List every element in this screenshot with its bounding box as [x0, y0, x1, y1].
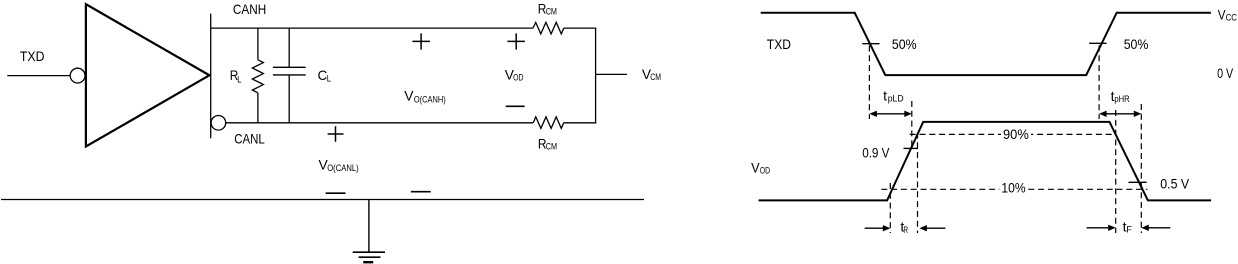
- wire CANH right segment: [564, 27, 597, 29]
- svg-text:OD: OD: [760, 166, 771, 176]
- dimension arrow tF left: [1087, 225, 1116, 231]
- minus sign VO(CANL): [326, 192, 346, 194]
- dimension arrow tpLD: [869, 111, 911, 117]
- dashed vertical VOD rise start: [889, 183, 891, 233]
- tick 50% falling: [862, 43, 879, 45]
- wire CANH left segment: [211, 27, 533, 29]
- svg-text:L: L: [327, 74, 331, 84]
- svg-text:OD: OD: [513, 73, 524, 83]
- dimension arrow tpHR: [1099, 111, 1141, 117]
- svg-text:10%: 10%: [1001, 179, 1025, 195]
- wire TXD input: [7, 75, 70, 77]
- tick 0.5V: [1129, 181, 1147, 183]
- svg-text:50%: 50%: [892, 36, 917, 52]
- svg-text:V: V: [404, 88, 414, 104]
- wire ground lead: [368, 200, 370, 252]
- capacitor CL: [273, 28, 306, 123]
- dimension arrow tR left: [865, 225, 891, 231]
- resistor RCM top: [533, 22, 564, 34]
- minus sign VOD: [506, 105, 525, 107]
- svg-text:CM: CM: [546, 6, 557, 16]
- dashed vertical VOD 0.5V crossing: [1140, 104, 1142, 233]
- resistor RL: [252, 28, 263, 123]
- wire CANL right segment: [564, 122, 597, 124]
- svg-text:0.5 V: 0.5 V: [1160, 176, 1189, 192]
- svg-text:t: t: [883, 88, 887, 104]
- svg-text:F: F: [1126, 225, 1132, 235]
- dashed line 10% level: [881, 188, 1147, 190]
- svg-text:TXD: TXD: [20, 48, 45, 64]
- svg-text:CM: CM: [650, 72, 661, 82]
- inverter bubble on CANL output: [211, 116, 226, 131]
- svg-text:TXD: TXD: [767, 36, 791, 52]
- wire VCM stub: [596, 73, 627, 75]
- svg-text:CC: CC: [1226, 12, 1238, 22]
- waveform VOD: [759, 122, 1212, 200]
- dashed vertical VOD 90% crossing: [917, 133, 919, 234]
- plus sign VO(CANL): [328, 126, 344, 142]
- svg-text:0.9 V: 0.9 V: [862, 145, 890, 161]
- minus sign VO(CANH): [411, 191, 431, 193]
- svg-text:O(CANL): O(CANL): [327, 163, 359, 173]
- tick 50% rising: [1089, 42, 1106, 44]
- svg-text:O(CANH): O(CANH): [414, 94, 446, 104]
- svg-text:CANH: CANH: [233, 1, 266, 17]
- plus sign VOD: [507, 33, 525, 49]
- svg-text:50%: 50%: [1124, 36, 1149, 52]
- plus sign VO(CANH): [412, 33, 430, 49]
- wire ground rail: [1, 199, 644, 201]
- ground: [353, 252, 385, 262]
- wire output bus vertical: [210, 14, 212, 139]
- svg-text:R: R: [903, 225, 908, 235]
- svg-text:CANL: CANL: [234, 130, 265, 146]
- svg-text:L: L: [237, 74, 241, 84]
- svg-text:CM: CM: [546, 142, 557, 152]
- inverter bubble on driver input: [70, 68, 85, 83]
- label 10%: [999, 179, 1028, 195]
- op-amp U1 driver triangle: [86, 4, 209, 146]
- svg-text:90%: 90%: [1003, 126, 1029, 142]
- dashed vertical VOD 0.9V crossing: [911, 101, 913, 150]
- wire CANL left segment: [226, 122, 534, 124]
- dashed vertical VOD fall 90% crossing: [1115, 110, 1117, 233]
- waveform TXD: [761, 13, 1211, 75]
- svg-text:0 V: 0 V: [1217, 65, 1234, 81]
- label 90%: [1001, 126, 1031, 142]
- svg-text:pLD: pLD: [888, 94, 904, 104]
- dashed line 90% level: [910, 133, 1116, 135]
- dimension arrow tF right: [1141, 225, 1170, 231]
- dashed vertical TXD 50% rising: [1098, 46, 1100, 120]
- resistor RCM bottom: [533, 117, 564, 128]
- dimension arrow tR right: [919, 225, 945, 231]
- wire right vertical joining RCM resistors: [595, 28, 597, 123]
- svg-text:pHR: pHR: [1114, 94, 1130, 104]
- tick 0.9V: [904, 147, 919, 149]
- dashed vertical TXD 50% falling: [868, 46, 870, 120]
